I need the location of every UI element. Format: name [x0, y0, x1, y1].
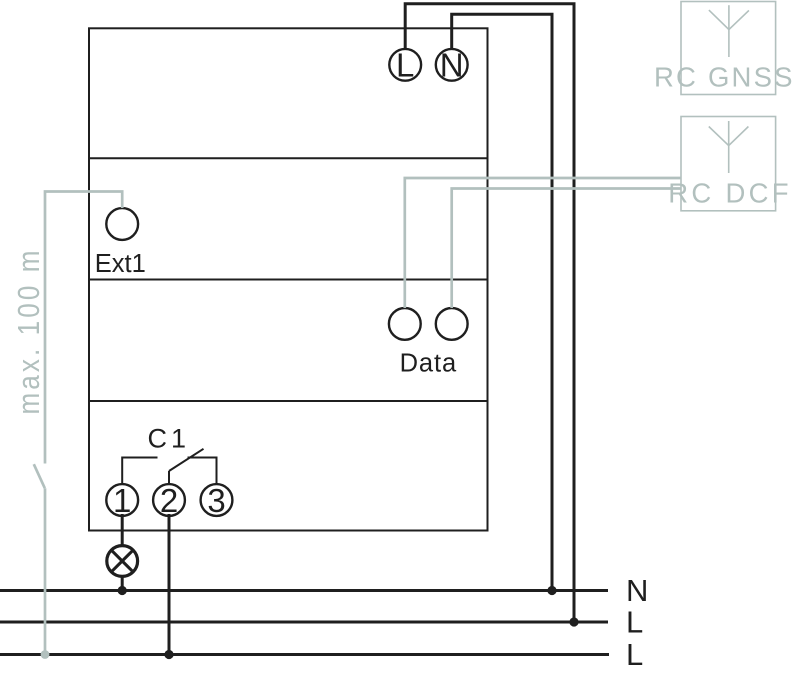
- terminal N: [436, 47, 468, 84]
- svg-text:L: L: [626, 605, 643, 640]
- terminal 1: [106, 482, 138, 519]
- terminal Data A: [389, 308, 421, 340]
- svg-text:Data: Data: [400, 349, 457, 377]
- relay contact C1: switch blade: [169, 449, 204, 471]
- lamp E1: [107, 546, 138, 577]
- junction dot N wire / N line: [547, 586, 556, 595]
- label RC DCF: [668, 178, 792, 209]
- label L (middle): [626, 605, 643, 640]
- svg-text:N: N: [626, 573, 648, 608]
- svg-text:Ext1: Ext1: [95, 250, 146, 278]
- RC DCF antenna box: [681, 117, 776, 211]
- N mains line: [0, 589, 608, 592]
- svg-text:RC DCF: RC DCF: [668, 178, 792, 209]
- external switch S1 blade: [34, 464, 45, 488]
- terminal Ext1: [106, 208, 138, 240]
- svg-text:3: 3: [207, 482, 225, 519]
- svg-text:C1: C1: [148, 424, 191, 454]
- label Data: [400, 349, 457, 377]
- label max. 100 m: [12, 247, 47, 414]
- terminal 2: [153, 482, 185, 519]
- gray wire Ext1 lower run: [44, 488, 47, 654]
- junction dot lamp / N line: [118, 586, 127, 595]
- section divider 2: [89, 279, 488, 281]
- gray wire Data A to RC DCF: [405, 178, 681, 308]
- section divider 3: [89, 400, 488, 402]
- terminal L: [389, 47, 421, 84]
- L mains line (middle): [0, 621, 608, 624]
- svg-text:L: L: [396, 47, 414, 84]
- RC GNSS antenna box: [681, 2, 776, 95]
- terminal 3: [201, 482, 233, 519]
- terminal Data B: [436, 308, 468, 340]
- label Ext1: [95, 250, 146, 278]
- wire terminal 2 to bottom L line: [168, 514, 171, 655]
- relay contact C1: pole 3 bar: [188, 458, 217, 485]
- wire from terminal L to L net: [405, 4, 574, 622]
- RC DCF antenna symbol: [709, 121, 749, 173]
- label L (bottom): [626, 637, 643, 672]
- device box U1: [89, 28, 488, 530]
- label RC GNSS: [654, 62, 795, 93]
- gray junction dot Ext1 wire / bottom L line: [41, 650, 50, 659]
- junction dot L wire / L line: [569, 617, 578, 626]
- label N: [626, 573, 648, 608]
- svg-text:max. 100 m: max. 100 m: [12, 247, 47, 414]
- svg-text:2: 2: [160, 482, 178, 519]
- svg-text:L: L: [626, 637, 643, 672]
- svg-text:RC GNSS: RC GNSS: [654, 62, 795, 93]
- gray wire Ext1 upper run: [45, 192, 122, 464]
- section divider 1: [89, 157, 488, 159]
- svg-text:1: 1: [113, 482, 131, 519]
- junction dot terminal 2 wire / bottom L line: [164, 650, 173, 659]
- gray wire Data B to RC DCF: [452, 189, 681, 309]
- wire terminal 1 to lamp: [121, 514, 124, 546]
- relay contact C1: common stub from terminal 2: [168, 471, 170, 484]
- label C1: [148, 424, 191, 454]
- L mains line (bottom): [0, 653, 609, 656]
- svg-text:N: N: [440, 47, 464, 84]
- relay contact C1: pole 1 bar: [122, 458, 157, 485]
- RC GNSS antenna symbol: [709, 5, 749, 57]
- wire from terminal N to N net: [452, 14, 552, 590]
- wire lamp to N line: [121, 577, 124, 590]
